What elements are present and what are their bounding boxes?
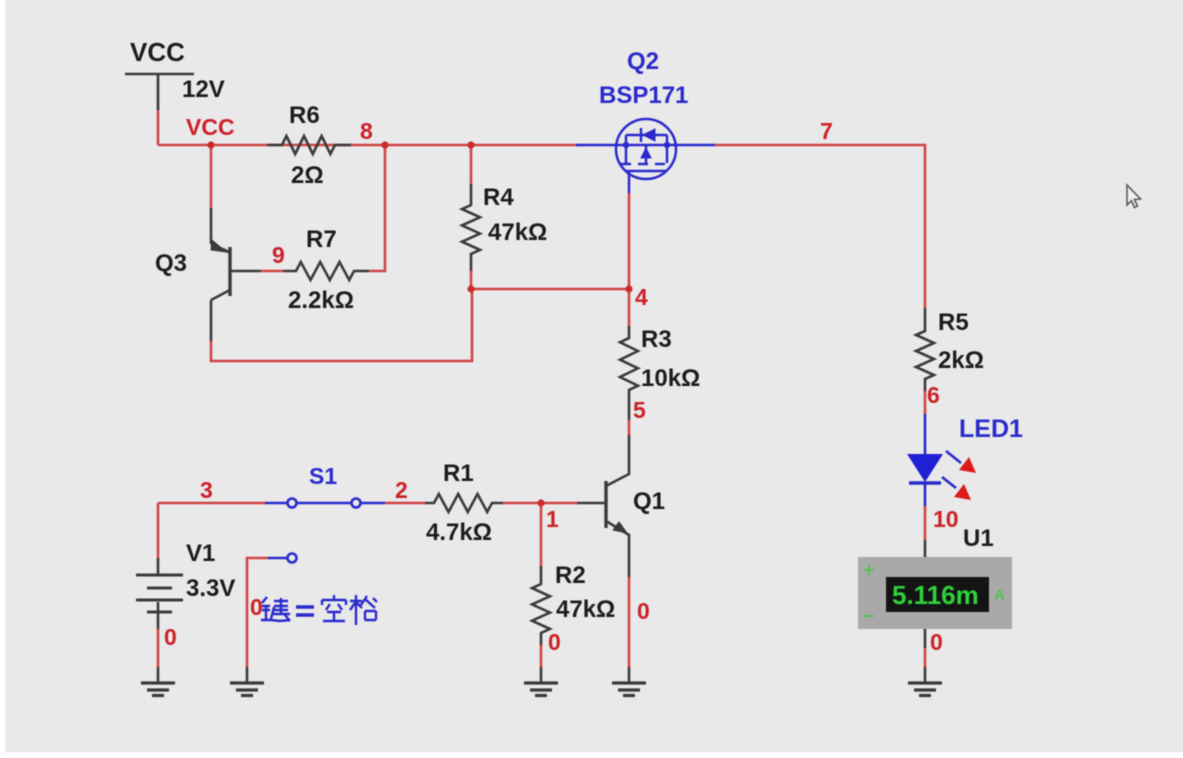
svg-text:7: 7 xyxy=(820,118,833,144)
svg-text:R1: R1 xyxy=(443,460,474,487)
svg-text:Q3: Q3 xyxy=(155,250,187,277)
svg-text:Q1: Q1 xyxy=(633,488,665,515)
svg-text:2: 2 xyxy=(395,477,408,503)
svg-text:R6: R6 xyxy=(289,102,320,129)
svg-text:LED1: LED1 xyxy=(959,415,1023,443)
svg-text:U1: U1 xyxy=(963,525,994,552)
svg-text:0: 0 xyxy=(930,629,943,655)
svg-text:4.7kΩ: 4.7kΩ xyxy=(426,519,492,546)
svg-text:Q2: Q2 xyxy=(627,48,659,75)
svg-text:10: 10 xyxy=(933,506,959,532)
svg-text:R3: R3 xyxy=(641,326,672,353)
svg-text:R4: R4 xyxy=(483,184,514,211)
svg-text:1: 1 xyxy=(546,506,559,532)
svg-text:8: 8 xyxy=(360,118,373,144)
svg-text:6: 6 xyxy=(927,382,940,408)
svg-text:A: A xyxy=(994,587,1005,604)
svg-text:47kΩ: 47kΩ xyxy=(488,219,547,246)
svg-text:2Ω: 2Ω xyxy=(291,162,324,189)
svg-text:0: 0 xyxy=(250,594,263,620)
svg-text:2.2kΩ: 2.2kΩ xyxy=(288,287,354,314)
svg-text:47kΩ: 47kΩ xyxy=(556,596,615,623)
svg-text:5.116m: 5.116m xyxy=(892,580,979,610)
svg-text:3: 3 xyxy=(200,477,213,503)
svg-text:R7: R7 xyxy=(306,226,337,253)
svg-text:VCC: VCC xyxy=(130,37,185,67)
svg-text:9: 9 xyxy=(272,242,285,268)
svg-text:0: 0 xyxy=(164,624,177,650)
svg-text:BSP171: BSP171 xyxy=(599,82,688,109)
svg-text:R2: R2 xyxy=(555,562,586,589)
svg-text:4: 4 xyxy=(635,284,648,310)
svg-text:S1: S1 xyxy=(309,463,337,489)
svg-text:5: 5 xyxy=(633,397,646,423)
svg-text:12V: 12V xyxy=(182,76,225,103)
svg-text:0: 0 xyxy=(637,598,650,624)
svg-text:3.3V: 3.3V xyxy=(186,575,235,602)
svg-text:0: 0 xyxy=(548,629,561,655)
svg-text:10kΩ: 10kΩ xyxy=(641,365,700,392)
svg-text:VCC: VCC xyxy=(186,114,235,140)
svg-text:R5: R5 xyxy=(938,309,969,336)
svg-text:V1: V1 xyxy=(186,540,215,567)
svg-text:2kΩ: 2kΩ xyxy=(938,347,984,374)
